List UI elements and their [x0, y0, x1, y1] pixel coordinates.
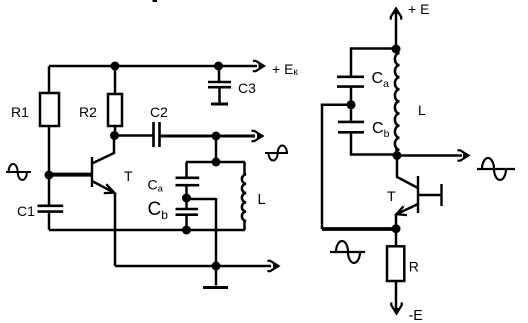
svg-text:+ Eк: + Eк — [272, 61, 298, 78]
inductor L left — [242, 162, 246, 230]
wire collector to C2 — [114, 134, 153, 137]
emitter down wire — [114, 193, 117, 266]
svg-text:R1: R1 — [11, 104, 29, 120]
capacitor C1 — [38, 206, 64, 212]
node tank tap junction — [182, 194, 191, 203]
ground under C3 — [211, 103, 228, 106]
wire R top lead — [395, 229, 398, 247]
emitter arrowhead — [396, 206, 407, 215]
wire C3 bottom lead — [218, 88, 221, 104]
svg-text:C1: C1 — [17, 203, 35, 219]
svg-text:Ca: Ca — [148, 177, 164, 195]
svg-text:C2: C2 — [150, 104, 168, 120]
wire R1 bottom to C1 — [48, 126, 51, 205]
node output junction — [212, 132, 221, 141]
inductor L right — [395, 49, 400, 156]
node collector junction right — [393, 151, 402, 160]
ground under emitter — [203, 286, 228, 289]
wire top link to Ca — [351, 49, 396, 77]
base terminal bar — [440, 184, 442, 206]
svg-text:T: T — [387, 188, 396, 204]
wire C3 top lead — [218, 66, 221, 82]
arrow +Ek supply — [253, 61, 264, 71]
wire Ca top lead — [185, 162, 188, 178]
wire Ca bottom lead — [350, 87, 353, 105]
wire tap to right — [187, 198, 217, 201]
wire C2 to output node — [160, 135, 216, 138]
node collector junction — [110, 131, 119, 140]
node junction top rail above R2 — [111, 62, 120, 71]
wire bottom rail — [49, 229, 245, 232]
capacitor C3 — [208, 82, 231, 87]
wire tap to left rail — [322, 105, 351, 229]
svg-text:C3: C3 — [238, 80, 256, 96]
base wire — [418, 194, 441, 197]
wire tap down — [215, 198, 218, 266]
node tank bottom junction — [182, 226, 191, 235]
base bar — [417, 176, 419, 213]
node mid tap right — [347, 100, 356, 109]
arrow collector output right — [457, 150, 468, 160]
capacitor Cb right — [338, 122, 364, 132]
wire output node down to tank — [215, 136, 218, 162]
wire top rail — [49, 65, 257, 68]
svg-text:-E: -E — [409, 308, 423, 323]
emitter arrowhead — [104, 184, 115, 193]
resistor R1 — [40, 93, 59, 126]
wire collector output arrow — [397, 154, 462, 157]
transistor T right — [396, 157, 442, 229]
node tank top junction — [212, 158, 221, 167]
wire +E lead — [395, 10, 398, 49]
svg-text:Cb: Cb — [148, 199, 169, 222]
wire Cb top lead — [185, 198, 188, 209]
arrow -E down — [391, 302, 401, 313]
wire thick base wire — [49, 173, 91, 177]
capacitor C2 — [154, 122, 160, 147]
wire Cb top lead — [350, 105, 353, 121]
collector lead — [92, 135, 114, 164]
svg-text:R: R — [409, 259, 419, 275]
wire emitter output arrow — [216, 265, 271, 268]
svg-text:L: L — [258, 192, 266, 208]
svg-text:+ E: + E — [408, 1, 429, 17]
capacitor Ca right — [337, 77, 364, 87]
emitter lead — [396, 204, 418, 214]
svg-text:T: T — [124, 168, 133, 184]
wire Cb bottom lead — [185, 215, 188, 230]
collector lead — [397, 157, 418, 188]
arrow output left circuit — [251, 131, 262, 141]
svg-text:L: L — [418, 102, 426, 118]
node top junction right — [392, 45, 401, 54]
wire thick emitter feedback — [322, 227, 396, 231]
wire ground lead — [215, 266, 218, 286]
transistor T left — [92, 135, 115, 266]
arrow emitter output — [267, 261, 278, 271]
sine output symbol right circuit — [477, 158, 515, 180]
wire R bottom lead — [395, 281, 398, 312]
sine input symbol right circuit — [330, 241, 365, 263]
node base junction — [45, 171, 54, 180]
wire Ca to mid node — [185, 185, 188, 198]
wire tank top rail — [186, 161, 245, 164]
svg-text:Cb: Cb — [372, 120, 390, 140]
resistor R2 — [108, 94, 122, 126]
emitter lead — [92, 181, 114, 193]
svg-text:R2: R2 — [79, 104, 97, 120]
wire R1 top lead — [48, 66, 51, 93]
node emitter junction right — [392, 224, 401, 233]
node junction top rail above C3 — [214, 62, 223, 71]
emitter down wire — [395, 215, 398, 230]
cropped title remnant — [153, 0, 158, 2]
sine input symbol left — [6, 164, 31, 180]
resistor R — [387, 246, 404, 281]
arrow +E up — [391, 9, 401, 20]
base bar — [91, 157, 93, 187]
wire R2 bottom lead — [114, 126, 117, 135]
capacitor Cb left — [176, 209, 199, 215]
wire Cb bottom to bottom node — [351, 134, 396, 155]
node emitter output junction — [212, 262, 221, 271]
wire output arrow — [216, 135, 255, 138]
svg-text:Ca: Ca — [372, 70, 390, 90]
capacitor Ca left — [176, 178, 200, 185]
wire emitter bottom rail — [115, 265, 216, 268]
wire R2 top lead — [114, 66, 117, 94]
wire C1 bottom lead — [48, 212, 51, 230]
sine output symbol left circuit — [265, 145, 288, 160]
